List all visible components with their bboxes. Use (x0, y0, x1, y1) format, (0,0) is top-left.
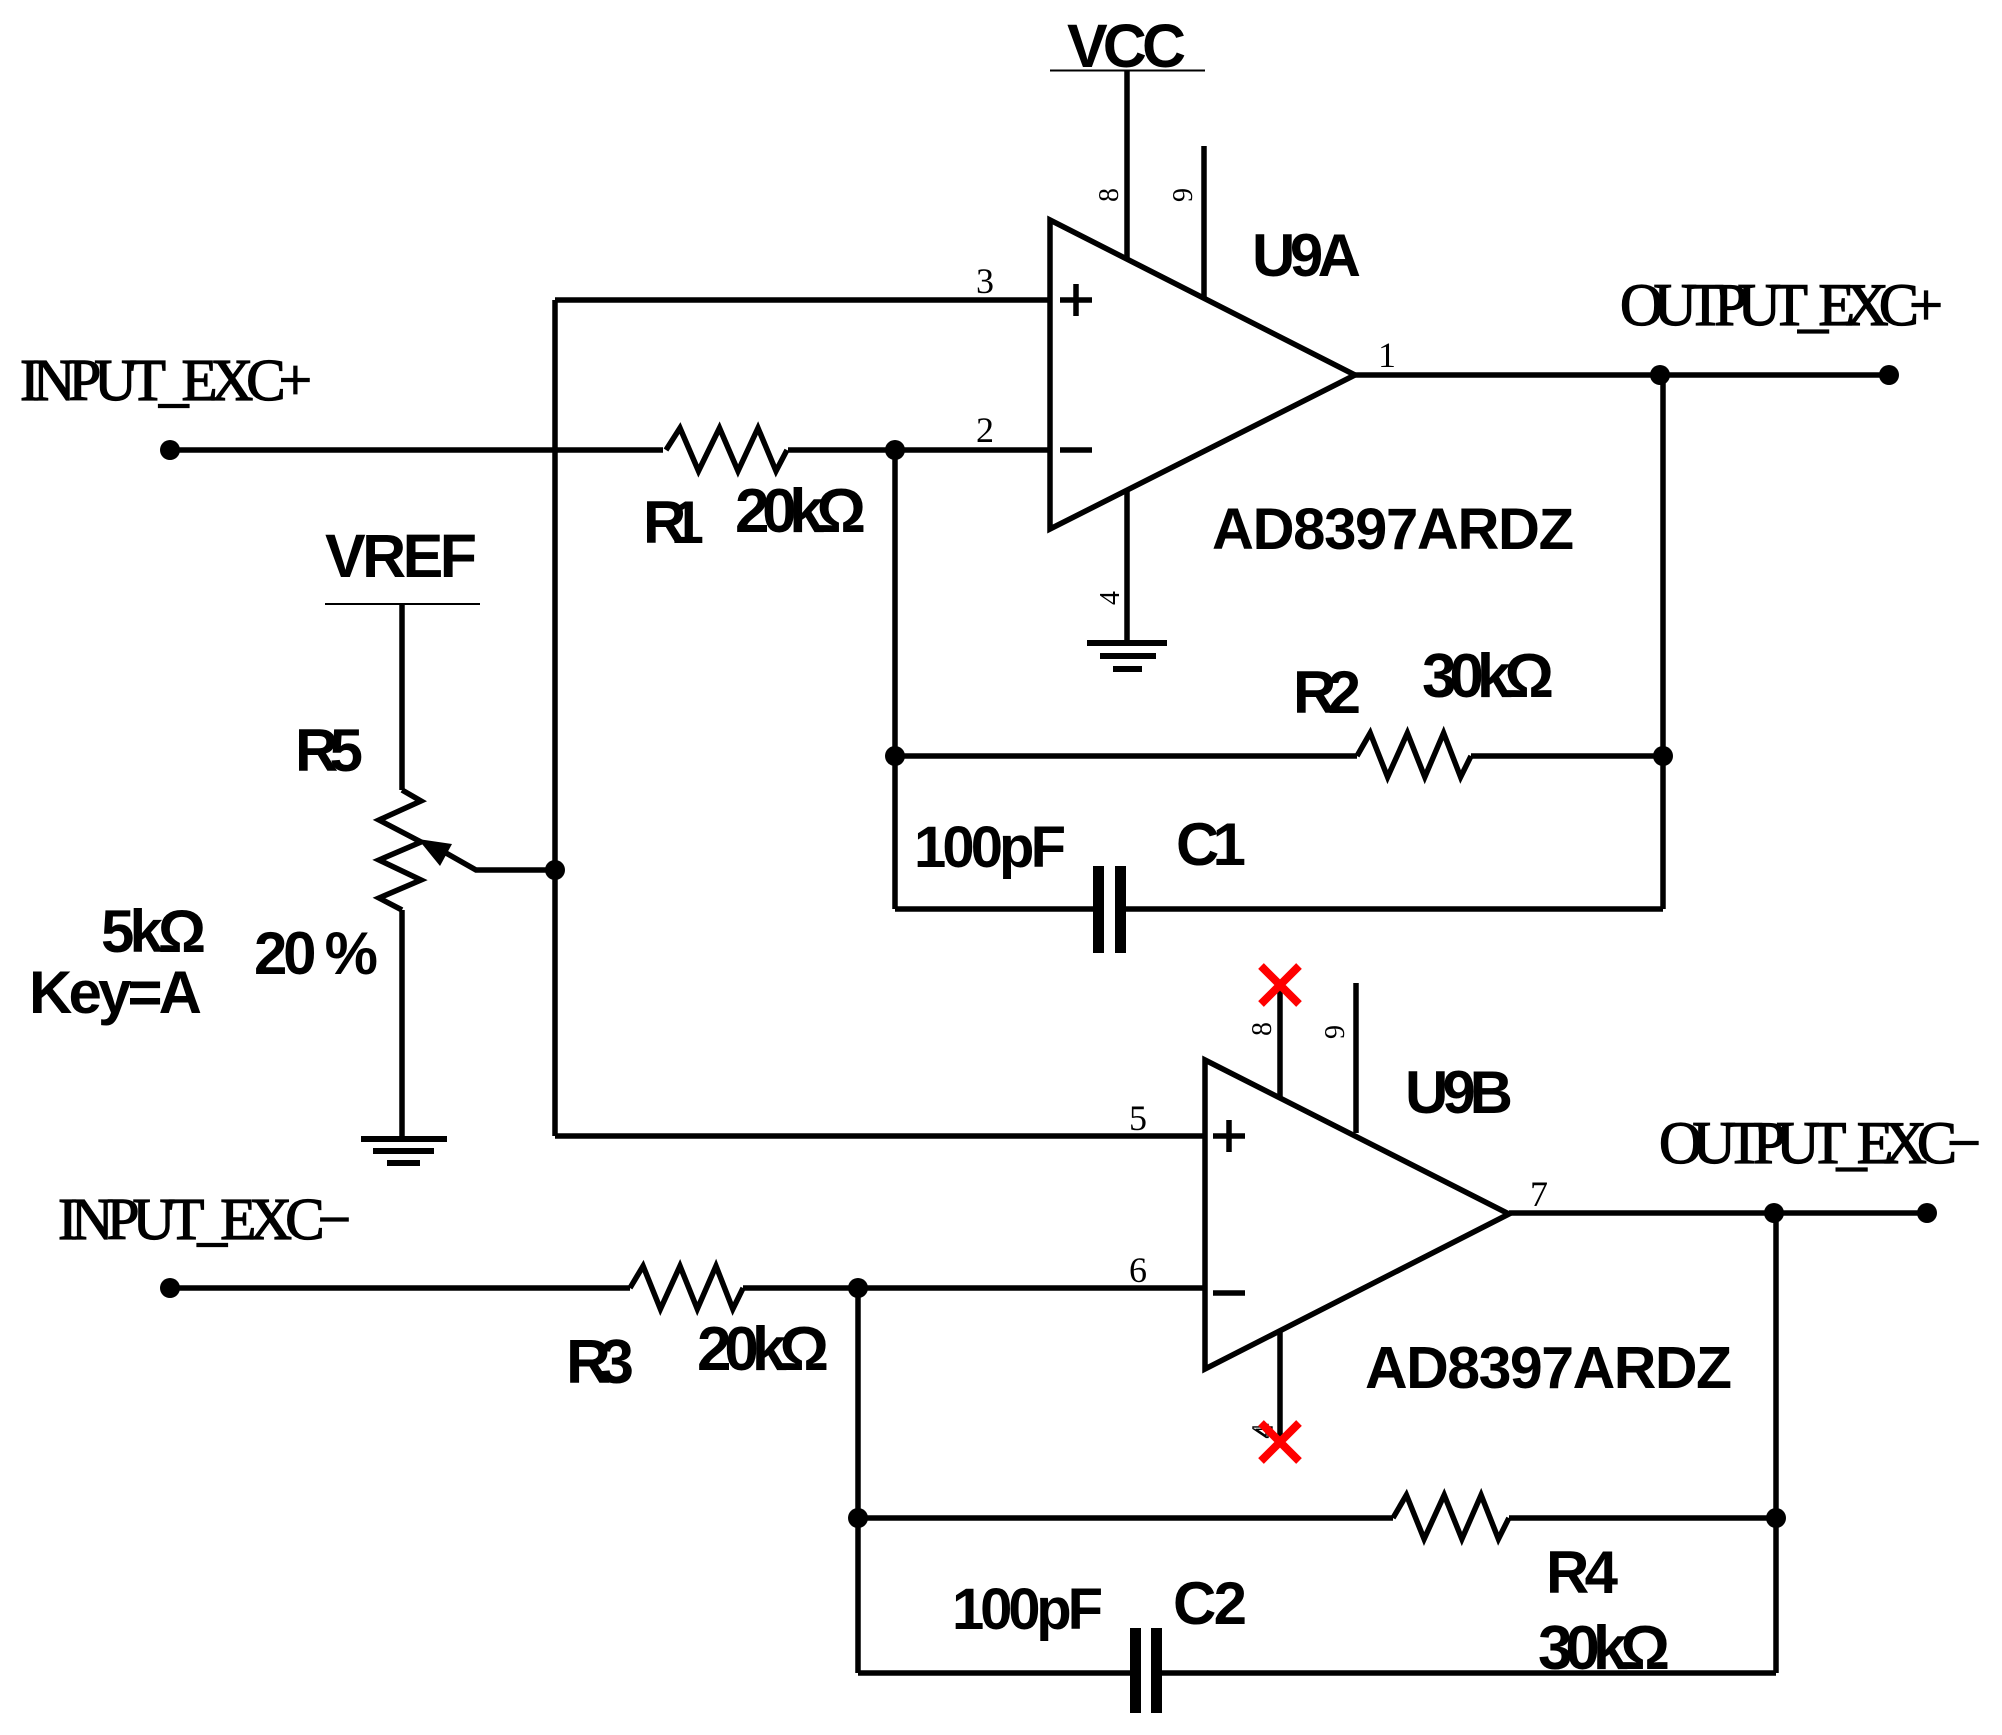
wire INPUT_EXC- to R3 (170, 1285, 630, 1291)
wire feedback right vertical U9B (1773, 1213, 1779, 1673)
svg-text:AD8397ARDZ: AD8397ARDZ (1212, 497, 1574, 562)
wire feedback left vertical U9B (855, 1288, 861, 1673)
power VREF (325, 522, 480, 604)
node junction R2 left (885, 746, 905, 766)
ground under R5 (361, 1139, 447, 1163)
svg-text:U9B: U9B (1405, 1059, 1513, 1126)
svg-text:1: 1 (1378, 335, 1396, 375)
potentiometer R5 (379, 790, 421, 910)
wire C2 left (858, 1670, 1130, 1676)
power VCC (1050, 12, 1205, 80)
svg-text:100pF: 100pF (914, 815, 1066, 880)
svg-text:6: 6 (1129, 1250, 1147, 1290)
wiper of R5 (418, 839, 553, 870)
wire pin6 junction to U9B inverting input (858, 1285, 1205, 1291)
node junction wiper (545, 860, 565, 880)
wire feedback right vertical (1660, 375, 1666, 909)
resistor R3 (630, 1266, 743, 1309)
node OUTPUT_EXC- terminal dot (1917, 1203, 1937, 1223)
svg-text:R2: R2 (1293, 659, 1361, 726)
no-connect X pin8 U9B (1261, 966, 1299, 1004)
svg-text:R5: R5 (295, 717, 363, 784)
wire R4 right (1509, 1515, 1776, 1521)
node junction pin2 (885, 440, 905, 460)
wire pin5 from branch to U9B non-inverting input (555, 1133, 1205, 1139)
svg-text:C1: C1 (1176, 811, 1246, 878)
node OUTPUT_EXC+ terminal dot (1879, 365, 1899, 385)
wire R3 to junction (743, 1285, 858, 1291)
wire pin9 U9A (1201, 146, 1207, 297)
node INPUT_EXC+ terminal dot (160, 440, 180, 460)
node INPUT_EXC- terminal dot (160, 1278, 180, 1298)
svg-text:20 %: 20 % (254, 920, 378, 987)
node junction pin6 (848, 1278, 868, 1298)
svg-text:7: 7 (1530, 1174, 1548, 1214)
svg-text:OUTPUT_EXC+: OUTPUT_EXC+ (1620, 272, 1943, 338)
svg-text:3: 3 (976, 261, 994, 301)
wire pin2 junction to U9A inverting input (895, 447, 1050, 453)
resistor R4 (1393, 1495, 1509, 1539)
op-amp U9B (1205, 1060, 1509, 1369)
svg-text:8: 8 (1094, 188, 1125, 202)
svg-text:INPUT_EXC+: INPUT_EXC+ (20, 347, 312, 413)
wire R5 to ground (399, 910, 405, 1139)
node junction R4 right (1766, 1508, 1786, 1528)
svg-text:R3: R3 (566, 1328, 634, 1397)
svg-text:20kΩ: 20kΩ (697, 1315, 829, 1384)
capacitor C2 (1130, 1628, 1162, 1713)
wire pin3 net from branch to U9A non-inverting input (555, 297, 1050, 303)
svg-text:AD8397ARDZ: AD8397ARDZ (1365, 1335, 1732, 1401)
svg-text:9: 9 (1320, 1025, 1351, 1039)
svg-text:30kΩ: 30kΩ (1422, 642, 1554, 711)
wire R2 left (895, 753, 1357, 759)
svg-text:8: 8 (1247, 1022, 1278, 1036)
svg-text:9: 9 (1168, 188, 1199, 202)
node junction output U9A (1650, 365, 1670, 385)
wire R2 right (1471, 753, 1663, 759)
no-connect X pin4 U9B (1261, 1423, 1299, 1461)
svg-text:VREF: VREF (325, 522, 477, 590)
op-amp U9A (1050, 220, 1355, 529)
wire INPUT_EXC+ to R1 (170, 447, 663, 453)
wire C1 right (1126, 906, 1663, 912)
wire R1 to junction (788, 447, 895, 453)
wire C1 left (895, 906, 1093, 912)
wire pin4 U9B (1277, 1330, 1283, 1438)
svg-text:5: 5 (1129, 1098, 1147, 1138)
wire pin8 U9A (1124, 71, 1130, 259)
svg-text:Key=A: Key=A (29, 959, 202, 1026)
capacitor C1 (1093, 866, 1126, 953)
wire vertical branch from pin3 down to pin5 (552, 300, 558, 1136)
svg-text:OUTPUT_EXC−: OUTPUT_EXC− (1659, 1110, 1981, 1176)
resistor R1 (666, 428, 787, 471)
svg-text:INPUT_EXC−: INPUT_EXC− (58, 1186, 351, 1252)
svg-text:U9A: U9A (1252, 222, 1361, 289)
svg-text:20kΩ: 20kΩ (735, 477, 866, 546)
svg-text:C2: C2 (1173, 1570, 1247, 1637)
node junction R4 left (848, 1508, 868, 1528)
svg-text:4: 4 (1095, 591, 1126, 605)
wire C2 right (1162, 1670, 1776, 1676)
wire feedback left vertical (892, 450, 898, 909)
wire U9B output (1509, 1210, 1927, 1216)
wire pin4 U9A (1124, 490, 1130, 643)
svg-text:R1: R1 (643, 489, 704, 556)
resistor R2 (1357, 733, 1471, 777)
svg-text:R4: R4 (1546, 1539, 1619, 1606)
svg-text:2: 2 (976, 410, 994, 450)
node junction R2 right (1653, 746, 1673, 766)
wire U9A output (1355, 372, 1889, 378)
wire R4 left (858, 1515, 1393, 1521)
ground under U9A (1087, 643, 1167, 669)
wire pin8 U9B (1277, 988, 1283, 1098)
svg-text:100pF: 100pF (952, 1577, 1103, 1642)
wire pin9 U9B (1353, 983, 1359, 1133)
svg-text:5kΩ: 5kΩ (101, 898, 206, 965)
node junction output U9B (1764, 1203, 1784, 1223)
wire VREF to R5 (399, 604, 405, 790)
